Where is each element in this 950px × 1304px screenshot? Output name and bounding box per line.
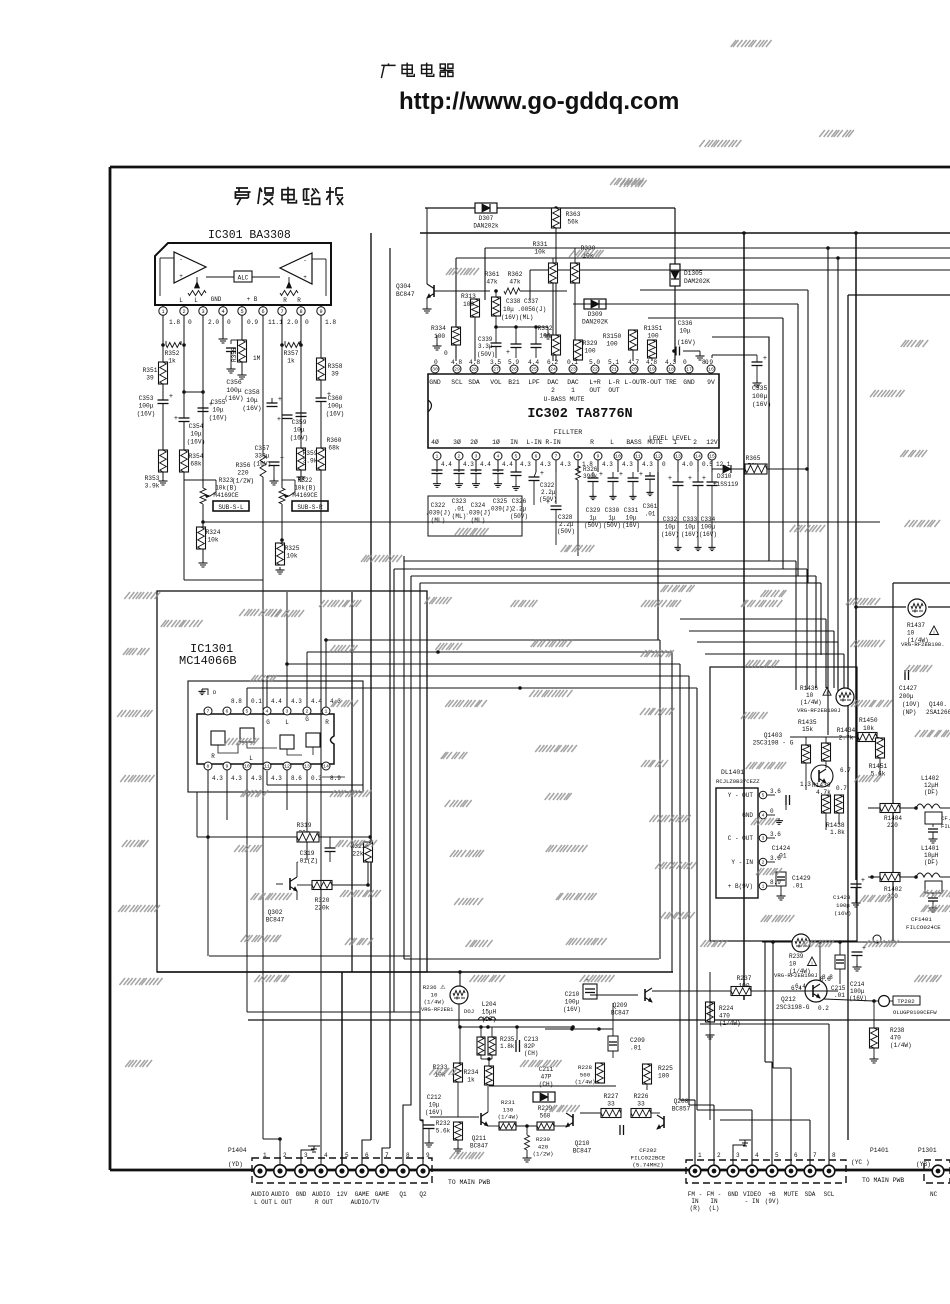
svg-text:10μ: 10μ [626, 515, 637, 522]
svg-text:M4169CE: M4169CE [292, 492, 318, 499]
svg-text:FIL: FIL [941, 823, 950, 830]
svg-text:R351: R351 [143, 367, 158, 374]
svg-text:11: 11 [264, 764, 270, 770]
svg-text:R-IN: R-IN [545, 439, 561, 446]
svg-text:MUTE: MUTE [784, 1191, 799, 1198]
svg-text:C211: C211 [539, 1066, 554, 1073]
svg-text:(16V): (16V) [326, 410, 345, 417]
svg-text:4: 4 [324, 1152, 328, 1159]
svg-text:470: 470 [719, 1013, 730, 1020]
svg-text:GND: GND [211, 296, 222, 303]
svg-text:12: 12 [284, 764, 290, 770]
svg-text:SDA: SDA [468, 379, 480, 386]
svg-text:(16V): (16V) [425, 1109, 443, 1116]
svg-text:+1SS119: +1SS119 [713, 481, 739, 488]
svg-text:C333: C333 [683, 516, 698, 523]
svg-text:RCJLZ0B37CEZZ: RCJLZ0B37CEZZ [716, 778, 760, 785]
svg-text:(5.74MHz): (5.74MHz) [632, 1162, 663, 1169]
svg-text:R324: R324 [206, 529, 221, 536]
svg-text:DAN202k: DAN202k [473, 223, 499, 230]
svg-text:11: 11 [635, 454, 641, 460]
svg-text:8.9: 8.9 [330, 775, 341, 782]
svg-text:0: 0 [188, 319, 192, 326]
svg-text:D310: D310 [717, 473, 732, 480]
svg-text:10μ: 10μ [246, 397, 258, 404]
svg-text:33: 33 [607, 1101, 615, 1108]
svg-text:R1402: R1402 [884, 886, 902, 893]
svg-text:2.2μ: 2.2μ [541, 489, 556, 496]
svg-text:B21: B21 [508, 379, 520, 386]
svg-text:3: 3 [475, 454, 478, 460]
svg-text:6: 6 [226, 709, 229, 715]
svg-text:R232: R232 [436, 1120, 451, 1127]
svg-text:1: 1 [263, 1152, 267, 1159]
svg-text:DAM202K: DAM202K [684, 278, 710, 285]
svg-text:390k: 390k [583, 473, 598, 480]
svg-text:CF.: CF. [941, 815, 950, 822]
svg-text:C328: C328 [558, 514, 573, 521]
svg-text:ALC: ALC [238, 275, 249, 282]
svg-text:0: 0 [227, 319, 231, 326]
svg-text:G: G [305, 716, 309, 723]
svg-text:GAME: GAME [355, 1191, 370, 1198]
svg-text:C339: C339 [478, 336, 493, 343]
svg-text:10k: 10k [286, 553, 297, 560]
svg-text:10μ: 10μ [429, 1102, 440, 1109]
svg-text:.01: .01 [454, 506, 465, 513]
svg-text:(1/4W): (1/4W) [498, 1114, 519, 1121]
svg-text:3: 3 [762, 836, 765, 842]
svg-text:(1/4W): (1/4W) [890, 1042, 912, 1049]
svg-text:(16V): (16V) [622, 522, 640, 529]
svg-text:1k: 1k [168, 358, 176, 365]
svg-text:C335: C335 [752, 385, 768, 392]
svg-text:.039(J): .039(J) [487, 506, 512, 513]
svg-text:1.8: 1.8 [325, 319, 336, 326]
svg-text:100: 100 [584, 348, 595, 355]
svg-text:http://www.go-gddq.com: http://www.go-gddq.com [399, 88, 679, 115]
svg-text:R359: R359 [303, 450, 318, 457]
svg-text:BC847: BC847 [266, 917, 285, 924]
svg-text:R363: R363 [566, 211, 581, 218]
svg-text:R1436: R1436 [800, 685, 818, 692]
svg-text:R228: R228 [578, 1064, 592, 1071]
svg-text:P1301: P1301 [918, 1147, 937, 1154]
svg-text:1: 1 [571, 387, 575, 394]
svg-text:0: 0 [770, 808, 774, 815]
svg-text:8.6: 8.6 [291, 775, 302, 782]
svg-text:5: 5 [345, 1152, 349, 1159]
svg-text:C322: C322 [431, 502, 446, 509]
svg-text:(10V): (10V) [902, 701, 920, 708]
svg-text:5: 5 [775, 1152, 779, 1159]
svg-text:R334: R334 [431, 325, 446, 332]
svg-text:R360: R360 [327, 437, 342, 444]
svg-text:9: 9 [426, 1152, 430, 1159]
svg-text:U-BASS MUTE: U-BASS MUTE [544, 396, 585, 403]
svg-text:+: + [278, 396, 282, 404]
svg-text:13: 13 [675, 454, 681, 460]
svg-text:DAC: DAC [547, 379, 559, 386]
svg-text:C353: C353 [139, 395, 154, 402]
svg-text:.01: .01 [834, 992, 845, 999]
svg-text:TRE: TRE [665, 379, 677, 386]
svg-text:0.9: 0.9 [247, 319, 258, 326]
svg-text:R: R [297, 297, 301, 304]
svg-text:1: 1 [161, 309, 164, 315]
svg-text:(ML): (ML) [431, 517, 445, 524]
svg-text:13: 13 [304, 764, 310, 770]
svg-text:R329: R329 [583, 340, 598, 347]
svg-text:9: 9 [597, 454, 600, 460]
svg-text:BC847: BC847 [470, 1143, 488, 1150]
svg-text:2.0: 2.0 [208, 319, 219, 326]
svg-text:C213: C213 [524, 1036, 539, 1043]
svg-text:L-OUT: L-OUT [624, 379, 643, 386]
svg-text:6: 6 [794, 1152, 798, 1159]
svg-text:GND: GND [728, 1191, 739, 1198]
svg-text:C329: C329 [586, 507, 601, 514]
svg-text:CF1401: CF1401 [911, 916, 932, 923]
svg-text:14: 14 [323, 764, 329, 770]
svg-text:7: 7 [207, 709, 210, 715]
svg-text:12V: 12V [337, 1191, 348, 1198]
svg-text:.01: .01 [775, 853, 786, 860]
svg-text:MUTE: MUTE [647, 439, 663, 446]
svg-text:L+R: L+R [589, 379, 601, 386]
svg-text:(16V): (16V) [563, 1006, 581, 1013]
svg-text:12: 12 [655, 454, 661, 460]
svg-text:C332: C332 [663, 516, 678, 523]
svg-text:BC847: BC847 [573, 1148, 592, 1155]
svg-text:+: + [702, 475, 706, 483]
svg-text:DAN202K: DAN202K [582, 319, 608, 326]
svg-text:CF202: CF202 [639, 1147, 657, 1154]
svg-text:R: R [590, 439, 594, 446]
svg-text:L: L [610, 439, 614, 446]
svg-text:4.3: 4.3 [463, 461, 474, 468]
svg-text:- IN: - IN [745, 1198, 760, 1205]
svg-text:23: 23 [570, 367, 576, 373]
svg-text:P1404: P1404 [228, 1147, 247, 1154]
svg-text:3Ø: 3Ø [453, 438, 461, 446]
svg-text:14: 14 [695, 454, 701, 460]
svg-text:FM -: FM - [688, 1191, 702, 1198]
svg-text:IC301 BA3308: IC301 BA3308 [208, 229, 291, 242]
svg-text:28: 28 [471, 367, 477, 373]
svg-text:C212: C212 [427, 1094, 442, 1101]
svg-text:10μ: 10μ [212, 407, 223, 414]
svg-text:220: 220 [887, 822, 898, 829]
svg-text:Q212: Q212 [781, 996, 796, 1003]
svg-text:C1424: C1424 [772, 845, 791, 852]
svg-text:-: - [303, 257, 307, 264]
svg-text:C - OUT: C - OUT [728, 835, 754, 842]
svg-text:100: 100 [463, 301, 474, 308]
svg-text:10: 10 [806, 692, 814, 699]
svg-text:GND: GND [296, 1191, 307, 1198]
svg-text:4: 4 [755, 1152, 759, 1159]
svg-text:100μ: 100μ [139, 403, 154, 410]
svg-text:5: 5 [515, 454, 518, 460]
svg-text:26: 26 [511, 367, 517, 373]
svg-text:(16V): (16V) [290, 434, 309, 441]
svg-text:6: 6 [535, 454, 538, 460]
svg-text:10μ: 10μ [685, 524, 696, 531]
svg-text:VIDEO: VIDEO [743, 1191, 761, 1198]
svg-text:C330: C330 [605, 507, 620, 514]
svg-text:2: 2 [693, 439, 697, 446]
svg-text:2SC3198-G: 2SC3198-G [776, 1004, 810, 1011]
svg-text:100μ: 100μ [565, 999, 580, 1006]
svg-text:1: 1 [325, 709, 328, 715]
svg-text:+: + [179, 273, 183, 280]
svg-text:(50V): (50V) [477, 351, 495, 358]
svg-text:4.3: 4.3 [231, 775, 242, 782]
svg-text:7: 7 [280, 309, 283, 315]
svg-text:15k: 15k [802, 726, 813, 733]
svg-text:22k: 22k [352, 851, 363, 858]
svg-text:C331: C331 [624, 507, 639, 514]
svg-text:25: 25 [531, 367, 537, 373]
svg-text:+: + [861, 877, 865, 885]
svg-text:6: 6 [365, 1152, 369, 1159]
svg-text:100μ: 100μ [226, 387, 242, 394]
svg-text:R234: R234 [464, 1069, 479, 1076]
svg-text:IN: IN [710, 1198, 718, 1205]
svg-text:VRG-RF2EB100.: VRG-RF2EB100. [901, 641, 945, 648]
svg-text:15μH: 15μH [482, 1009, 497, 1016]
svg-text:(NP): (NP) [902, 709, 916, 716]
svg-text:Q211: Q211 [472, 1135, 487, 1142]
svg-text:(1/4W): (1/4W) [575, 1079, 596, 1086]
svg-text:Q140.: Q140. [929, 701, 947, 708]
svg-text:MC14066B: MC14066B [179, 654, 237, 668]
svg-text:AUDIO: AUDIO [251, 1191, 269, 1198]
svg-text:10μ: 10μ [293, 427, 304, 434]
svg-text:(1/4W): (1/4W) [800, 699, 822, 706]
svg-text:1.8: 1.8 [169, 319, 180, 326]
svg-text:R325: R325 [285, 545, 300, 552]
svg-text:20: 20 [631, 367, 637, 373]
svg-text:2.0: 2.0 [287, 319, 298, 326]
svg-text:560: 560 [580, 1071, 591, 1078]
svg-text:R: R [325, 719, 329, 726]
svg-text:1: 1 [436, 454, 439, 460]
svg-text:L1402: L1402 [921, 775, 939, 782]
svg-text:4: 4 [266, 709, 269, 715]
svg-text:4.3: 4.3 [622, 461, 633, 468]
svg-text:TO MAIN PWB: TO MAIN PWB [862, 1177, 904, 1184]
svg-text:12V: 12V [706, 439, 718, 446]
svg-text:100μ: 100μ [836, 902, 850, 909]
svg-text:C323: C323 [452, 498, 467, 505]
svg-text:R OUT: R OUT [315, 1199, 333, 1206]
svg-text:5: 5 [240, 309, 243, 315]
svg-text:220: 220 [237, 470, 248, 477]
svg-text:R1437: R1437 [907, 622, 925, 629]
svg-text:4.3: 4.3 [291, 698, 302, 705]
svg-text:R326: R326 [583, 466, 598, 473]
svg-text:33: 33 [637, 1101, 645, 1108]
svg-text:L: L [194, 297, 198, 304]
svg-text:.039(J): .039(J) [425, 510, 450, 517]
svg-text:(16V): (16V) [834, 910, 851, 917]
svg-text:(50V): (50V) [510, 513, 528, 520]
svg-text:(16V)(ML): (16V)(ML) [501, 314, 533, 321]
svg-text:L1401: L1401 [921, 845, 939, 852]
svg-text:C357: C357 [255, 445, 270, 452]
svg-text:11.1: 11.1 [268, 319, 283, 326]
svg-text:17: 17 [686, 367, 692, 373]
svg-text:L-R: L-R [608, 379, 620, 386]
svg-text:420: 420 [538, 1143, 549, 1150]
svg-text:0: 0 [444, 350, 448, 357]
svg-text:VRG-RF2EB100J: VRG-RF2EB100J [797, 707, 841, 714]
svg-text:3.6: 3.6 [770, 788, 781, 795]
svg-text:R226: R226 [634, 1093, 649, 1100]
svg-text:3: 3 [201, 309, 204, 315]
svg-text:LPF: LPF [528, 379, 540, 386]
svg-text:15: 15 [709, 454, 715, 460]
svg-text:100: 100 [658, 1073, 669, 1080]
svg-text:12μH: 12μH [924, 782, 939, 789]
svg-text:27: 27 [493, 367, 499, 373]
svg-text:2.7k: 2.7k [839, 735, 854, 742]
svg-text:4.3: 4.3 [271, 775, 282, 782]
svg-text:6.7: 6.7 [840, 767, 851, 774]
svg-text:2: 2 [717, 1152, 721, 1159]
svg-text:NC: NC [930, 1191, 938, 1198]
svg-text:D1305: D1305 [684, 270, 703, 277]
svg-text:9: 9 [319, 309, 322, 315]
svg-text:TO MAIN PWB: TO MAIN PWB [448, 1179, 490, 1186]
svg-text:(16V): (16V) [681, 531, 699, 538]
svg-text:2.2μ: 2.2μ [559, 521, 574, 528]
svg-text:8.8: 8.8 [231, 698, 242, 705]
svg-text:4.3: 4.3 [560, 461, 571, 468]
svg-text:10μH: 10μH [924, 852, 939, 859]
svg-text:C359: C359 [292, 419, 307, 426]
svg-text:DL1401: DL1401 [721, 769, 744, 776]
svg-text:+: + [506, 349, 510, 357]
svg-text:+: + [540, 470, 544, 478]
svg-text:200μ: 200μ [899, 693, 914, 700]
svg-text:47k: 47k [509, 279, 520, 286]
svg-text:8: 8 [577, 454, 580, 460]
svg-text:5.6k: 5.6k [436, 1128, 451, 1135]
svg-text:4.3: 4.3 [540, 461, 551, 468]
svg-text:C358: C358 [244, 389, 260, 396]
svg-text:7: 7 [555, 454, 558, 460]
svg-text:C1427: C1427 [899, 685, 917, 692]
svg-text:M4169CE: M4169CE [213, 492, 239, 499]
svg-text:C214: C214 [850, 981, 865, 988]
svg-text:C210: C210 [565, 991, 580, 998]
svg-text:(L): (L) [709, 1205, 720, 1212]
svg-text:R331: R331 [533, 241, 548, 248]
svg-text:4: 4 [762, 813, 765, 819]
svg-text:C336: C336 [678, 320, 693, 327]
svg-text:1.8k: 1.8k [500, 1043, 515, 1050]
svg-text:R1438: R1438 [826, 822, 845, 829]
svg-text:7: 7 [813, 1152, 817, 1159]
svg-text:19: 19 [649, 367, 655, 373]
svg-text:C209: C209 [630, 1037, 645, 1044]
svg-text:C325: C325 [493, 498, 508, 505]
svg-text:3: 3 [286, 709, 289, 715]
svg-text:4: 4 [497, 454, 500, 460]
svg-text:L: L [179, 297, 183, 304]
svg-text:L204: L204 [482, 1001, 497, 1008]
svg-text:10k: 10k [207, 537, 218, 544]
svg-text:1: 1 [762, 884, 765, 890]
svg-text:10: 10 [431, 991, 438, 998]
svg-text:OLUGP0109CEFW: OLUGP0109CEFW [893, 1009, 937, 1016]
svg-text:BASS: BASS [626, 439, 642, 446]
svg-text:R352: R352 [165, 350, 180, 357]
svg-text:!: ! [932, 630, 935, 636]
svg-text:16: 16 [708, 367, 714, 373]
svg-text:C322: C322 [540, 482, 555, 489]
svg-text:R224: R224 [719, 1005, 734, 1012]
svg-text:R1351: R1351 [644, 325, 663, 332]
svg-text:4Ø: 4Ø [431, 438, 439, 446]
svg-text:R1450: R1450 [859, 717, 878, 724]
svg-text:130: 130 [503, 1106, 514, 1113]
svg-text:7: 7 [385, 1152, 389, 1159]
svg-text:Q208: Q208 [674, 1098, 689, 1105]
svg-text:1k: 1k [287, 358, 295, 365]
svg-text:C1429: C1429 [792, 875, 811, 882]
svg-text:0.1: 0.1 [251, 698, 262, 705]
svg-text:R227: R227 [604, 1093, 619, 1100]
svg-text:100: 100 [606, 341, 617, 348]
svg-text:(DF): (DF) [924, 859, 938, 866]
svg-text:L-IN: L-IN [526, 439, 542, 446]
svg-text:0.7: 0.7 [836, 785, 847, 792]
svg-text:8.8: 8.8 [822, 974, 833, 981]
svg-text:C319: C319 [300, 850, 315, 857]
svg-text:GND: GND [429, 379, 441, 386]
svg-text:R235: R235 [500, 1036, 515, 1043]
svg-text:(1/2W): (1/2W) [533, 1151, 554, 1158]
svg-text:R: R [211, 753, 215, 760]
svg-text:OUT: OUT [589, 387, 600, 394]
svg-text:Q1403: Q1403 [764, 732, 783, 739]
svg-text:+: + [763, 355, 767, 363]
svg-text:(16V): (16V) [242, 405, 261, 412]
svg-text:.01: .01 [792, 883, 803, 890]
svg-text:D309: D309 [588, 311, 603, 318]
svg-text:(DF): (DF) [924, 789, 938, 796]
svg-text:(9V): (9V) [765, 1198, 779, 1205]
svg-text:SUB-S-R: SUB-S-R [297, 504, 323, 511]
svg-text:R230: R230 [536, 1136, 550, 1143]
svg-text:+ B(9V): + B(9V) [728, 883, 753, 890]
svg-text:10: 10 [244, 764, 250, 770]
svg-text:R236 ⚠: R236 ⚠ [423, 984, 446, 991]
svg-text:100μ: 100μ [752, 393, 768, 400]
svg-text:(YD): (YD) [228, 1161, 243, 1168]
svg-text:DAC: DAC [567, 379, 579, 386]
svg-text:L OUT: L OUT [254, 1199, 272, 1206]
svg-text:9V: 9V [707, 379, 715, 386]
svg-text:4.3: 4.3 [642, 461, 653, 468]
svg-text:4.4: 4.4 [271, 698, 282, 705]
svg-text:R1404: R1404 [884, 815, 902, 822]
svg-text:8: 8 [832, 1152, 836, 1159]
